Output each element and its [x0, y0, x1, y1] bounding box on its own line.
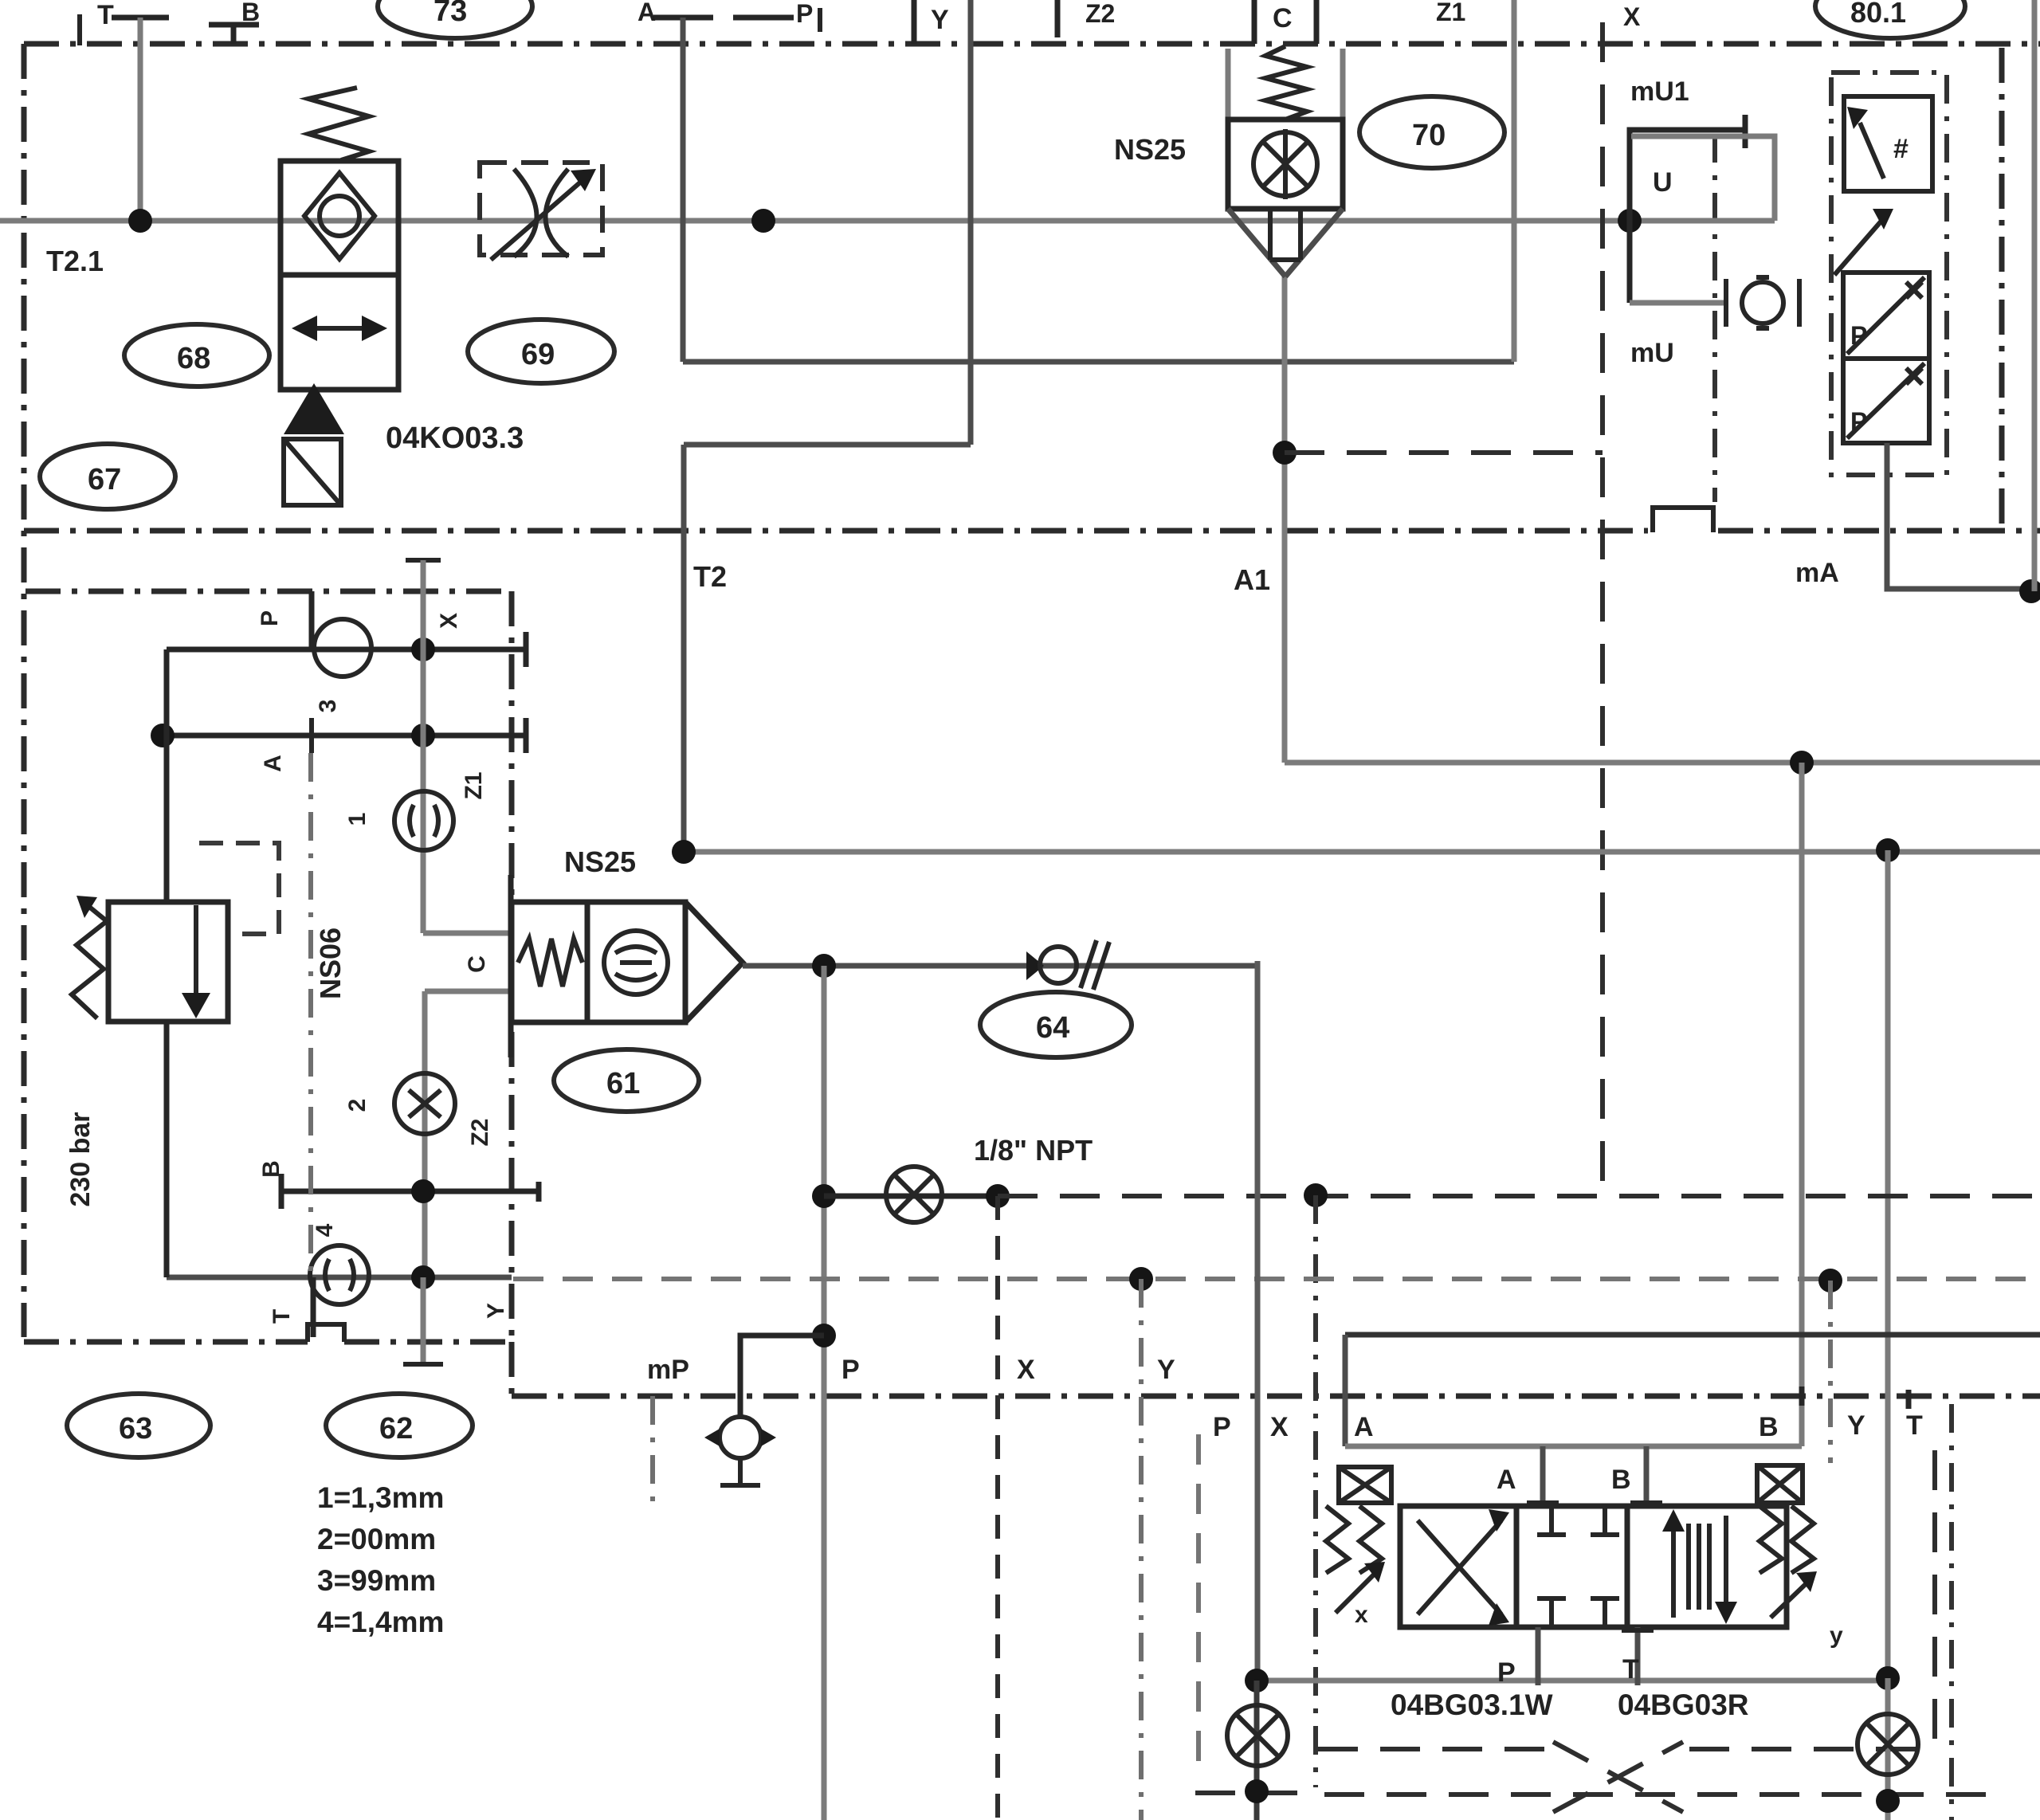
- dashed assembly box bottom: [1318, 1747, 1935, 1751]
- border mA port notch: [1653, 508, 1713, 532]
- svg-text:X: X: [436, 613, 462, 629]
- svg-text:4: 4: [312, 1223, 338, 1237]
- cartridge valve 70 body: [1228, 120, 1343, 209]
- svg-text:2: 2: [344, 1099, 371, 1112]
- junction T/main: [128, 209, 152, 233]
- svg-text:3=99mm: 3=99mm: [317, 1564, 436, 1597]
- junction X rail: [411, 637, 435, 661]
- svg-text:A: A: [260, 755, 286, 772]
- junction A1/X-pilot: [1273, 441, 1297, 465]
- svg-text:A: A: [1497, 1465, 1516, 1495]
- dash-dot pilot inside NS06: [308, 753, 313, 1272]
- U chamber gray box: [1631, 136, 1775, 221]
- NS06 T drop to border: [311, 1277, 316, 1337]
- cartridge valve 70 funnel: [1228, 209, 1343, 277]
- svg-text:A: A: [1354, 1412, 1374, 1442]
- port stub T: [1906, 1390, 1912, 1409]
- valve 61 shuttle circle: [604, 931, 668, 994]
- wire A1 horizontal y=957: [1285, 760, 2040, 766]
- valve parallel arrows (right cell): [1671, 1525, 1676, 1618]
- pilot dash-dot X drop x=1651: [1313, 1195, 1318, 1787]
- valve 61 spring: [518, 939, 583, 986]
- svg-text:x: x: [1355, 1602, 1368, 1628]
- port A tick: [653, 15, 713, 21]
- svg-text:B: B: [241, 0, 260, 26]
- check valve mU ball: [1742, 282, 1783, 324]
- svg-text:Z1: Z1: [461, 771, 487, 799]
- svg-text:4=1,4mm: 4=1,4mm: [317, 1606, 444, 1638]
- wire main supply line y=277: [0, 218, 1775, 224]
- wire T drop x=2369: [1885, 850, 1891, 1678]
- svg-text:B: B: [1611, 1465, 1631, 1495]
- svg-text:73: 73: [433, 0, 467, 28]
- NS06 tank rail y=1603: [167, 1275, 512, 1281]
- wire mP branch: [740, 1336, 824, 1418]
- dashed lower section top edge: [1324, 1792, 1992, 1797]
- NS06 rail 2 (A) y=923: [163, 733, 526, 739]
- svg-text:X: X: [1017, 1355, 1035, 1385]
- svg-text:T: T: [97, 0, 114, 30]
- valve 61 body: [512, 902, 685, 1022]
- junction T2/tank line: [672, 840, 696, 864]
- wire port A down: [681, 18, 686, 362]
- svg-text:62: 62: [379, 1412, 413, 1445]
- svg-text:04KO03.3: 04KO03.3: [386, 422, 524, 455]
- junction P rail: [1245, 1669, 1269, 1693]
- wire tank line y=1069: [684, 849, 2040, 855]
- svg-text:64: 64: [1036, 1011, 1069, 1045]
- svg-text:Y: Y: [1847, 1410, 1865, 1441]
- wire T2 horizontal y=558: [684, 442, 971, 448]
- test point circle-X P: [1254, 1681, 1260, 1820]
- check valve 68 body: [280, 161, 398, 390]
- valve 61 C stub: [508, 875, 514, 1057]
- svg-text:A: A: [637, 0, 656, 26]
- junction tank/Y: [411, 1265, 435, 1289]
- svg-text:T: T: [1906, 1410, 1923, 1441]
- svg-text:Y: Y: [931, 5, 949, 35]
- border NS06 block right: [509, 591, 515, 1342]
- valve closed centre (mid cell): [1537, 1506, 1619, 1627]
- svg-text:Z2: Z2: [467, 1118, 493, 1146]
- border staircase at mP: [650, 1396, 655, 1501]
- wire A-B rail y=1815: [1345, 1444, 1802, 1449]
- dashed gray drop x=1504: [1196, 1434, 1201, 1775]
- port stub left of T: [77, 14, 82, 45]
- dashed stub bottom left: [1195, 1791, 1318, 1795]
- svg-text:T: T: [269, 1309, 295, 1324]
- svg-text:NS25: NS25: [1114, 133, 1186, 166]
- svg-text:2=00mm: 2=00mm: [317, 1523, 436, 1555]
- svg-text:70: 70: [1412, 119, 1446, 152]
- oval tag 63: [67, 1394, 210, 1457]
- junction NS25 output / P drop: [812, 954, 836, 978]
- wire A to Z1 horizontal y=454: [683, 359, 1514, 365]
- wire Z1 vertical: [1512, 0, 1517, 362]
- pressure switch box P upper: [1843, 273, 1929, 359]
- svg-text:U: U: [1653, 167, 1673, 198]
- gauge adjust arrow: [1834, 220, 1882, 275]
- junction T rail: [1876, 1666, 1900, 1690]
- junction tank/T-drop: [1876, 838, 1900, 862]
- border NS06 T-port notch: [308, 1324, 344, 1342]
- svg-text:04BG03.1W: 04BG03.1W: [1391, 1689, 1553, 1721]
- wire Z1 column to orifice: [421, 735, 426, 933]
- svg-text:61: 61: [606, 1067, 640, 1100]
- wire B drop x=2261: [1799, 763, 1805, 1446]
- svg-text:Z2: Z2: [1085, 0, 1115, 28]
- wire T2 port vertical x=1218: [968, 0, 974, 445]
- terminal tick mU1: [1743, 115, 1748, 148]
- junction mA/right edge riser: [2019, 579, 2040, 603]
- wire NS25 output y=1212: [743, 963, 1257, 969]
- wire gauge down to mA: [1887, 443, 2029, 589]
- border sub-block mU dash-dot vertical: [1712, 134, 1717, 502]
- test point circle-X T: [1885, 1678, 1891, 1820]
- NS06 port P stub: [309, 591, 315, 648]
- port B tick: [209, 25, 259, 44]
- solenoid of valve 68: [284, 383, 344, 434]
- junction y-pilot branch: [1818, 1269, 1842, 1292]
- NS06 rail 1 (P/X) y=815: [167, 647, 526, 653]
- svg-text:1: 1: [344, 813, 371, 826]
- svg-text:1=1,3mm: 1=1,3mm: [317, 1481, 444, 1514]
- port Y stub: [912, 0, 917, 44]
- svg-text:NS06: NS06: [314, 928, 347, 999]
- border bottom-right dash-dot vertical: [1949, 1404, 1954, 1820]
- pilot dashed X to A1 y=568: [1285, 450, 1603, 455]
- solenoid left (x): [1339, 1467, 1391, 1503]
- wire T2 down to NS25 tee: [681, 445, 687, 852]
- junction A1/B-drop: [1790, 751, 1814, 775]
- solenoid right arrow y: [1771, 1581, 1809, 1618]
- junction X branch: [1304, 1183, 1328, 1207]
- svg-text:69: 69: [521, 338, 555, 371]
- oval tag 70: [1359, 96, 1504, 168]
- junction rail2 left: [151, 724, 175, 747]
- gauge box 1 needle arrow: [1860, 123, 1884, 178]
- oval tag 61: [554, 1049, 699, 1112]
- wire Z2 column down: [422, 991, 428, 1277]
- border top section frame, horizontal: [24, 41, 2040, 47]
- wire to test point 1/8 NPT: [824, 1194, 998, 1199]
- solenoid left springs: [1326, 1506, 1382, 1573]
- test point circle-X: [886, 1167, 942, 1222]
- svg-text:mU1: mU1: [1630, 76, 1689, 107]
- port Z2 stub: [1055, 0, 1061, 37]
- svg-text:#: #: [1893, 134, 1909, 164]
- NS06 port X from top: [406, 558, 441, 563]
- directional valve 04BG03.1W body: [1400, 1506, 1787, 1627]
- border NS06 block bottom: [24, 1340, 308, 1345]
- valve 61 nose cone: [685, 902, 743, 1022]
- check valve 64 seat: [1026, 951, 1044, 980]
- wire A1 from cartridge 70 down: [1282, 275, 1288, 763]
- wire port T down to main line: [138, 18, 143, 221]
- solenoid right springs: [1759, 1506, 1814, 1573]
- NS06 rail 3 (B) y=1495: [281, 1189, 539, 1194]
- port C box: [1254, 0, 1316, 44]
- svg-text:T2.1: T2.1: [46, 245, 104, 277]
- border mid divider at y=666: [24, 528, 1648, 534]
- wire right edge riser: [2032, 0, 2038, 591]
- orifice circle 1 (Z1): [394, 791, 453, 850]
- oval tag 80.1: [1815, 0, 1965, 38]
- relief valve 63 internal poppet: [194, 905, 198, 996]
- svg-text:63: 63: [119, 1412, 152, 1445]
- oval tag 73: [378, 0, 532, 38]
- border tick I right of P: [818, 8, 822, 32]
- svg-text:3: 3: [315, 700, 341, 713]
- svg-text:P: P: [1213, 1412, 1231, 1442]
- svg-text:Y: Y: [483, 1303, 509, 1319]
- wire P drop from NS25 output: [822, 966, 827, 1820]
- solenoid left arrow x: [1336, 1571, 1377, 1613]
- svg-text:B: B: [258, 1160, 284, 1178]
- solenoid right (y): [1757, 1465, 1803, 1503]
- orifice circle 2 (Z2): [394, 1073, 455, 1134]
- border left vertical: [22, 44, 27, 1337]
- orifice circle 3: [314, 619, 371, 677]
- check valve 68 diamond seat: [304, 173, 375, 259]
- border right vertical of top section: [1999, 48, 2005, 531]
- check valve 64 ball: [1040, 947, 1077, 983]
- wire bottom P/T rail y=2109: [1257, 1678, 1888, 1684]
- svg-text:67: 67: [88, 463, 121, 496]
- junction below circle-X P: [1245, 1779, 1269, 1803]
- wire X-Z1 column upper: [421, 649, 426, 735]
- svg-text:X: X: [1270, 1412, 1289, 1442]
- svg-text:Z1: Z1: [1436, 0, 1465, 26]
- check valve 68 poppet circle: [320, 196, 359, 236]
- check valve mU seat bars: [1726, 279, 1799, 327]
- drain dashed line y=1605: [513, 1277, 2040, 1281]
- svg-text:X: X: [1623, 2, 1641, 31]
- pilot dashed y drop x=2297: [1828, 1281, 1833, 1463]
- port stub B: [1799, 1387, 1805, 1406]
- svg-text:230 bar: 230 bar: [65, 1112, 96, 1206]
- svg-text:1/8" NPT: 1/8" NPT: [974, 1134, 1093, 1167]
- check valve 68 spring: [308, 88, 369, 160]
- oval tag 69: [468, 320, 614, 383]
- pilot dashed X vertical x=2011: [1600, 22, 1605, 1196]
- svg-text:P: P: [841, 1355, 860, 1385]
- svg-text:C: C: [464, 955, 490, 973]
- wire relief to tank rail: [164, 1022, 170, 1277]
- junction rail2 Z1: [411, 724, 435, 747]
- junction mP: [812, 1324, 836, 1347]
- port T tick: [112, 15, 169, 21]
- relief valve 63 body: [108, 902, 228, 1022]
- junction P/main: [751, 209, 775, 233]
- svg-text:A1: A1: [1234, 563, 1270, 596]
- wire Z1 to valve C upper: [423, 931, 512, 936]
- oval tag 67: [40, 444, 175, 509]
- throttle valve 69 arrow: [491, 177, 586, 260]
- oval tag 62: [326, 1394, 473, 1457]
- check valve 64 spring: [1081, 940, 1109, 990]
- pilot valve P stub: [1536, 1627, 1541, 1685]
- wire U riser: [1630, 130, 1748, 221]
- gauge box 1: [1844, 96, 1932, 191]
- pilot dashed NPT line y=1501: [998, 1194, 2040, 1198]
- junction NPT dashed: [986, 1184, 1010, 1208]
- svg-text:NS25: NS25: [564, 845, 636, 878]
- wire valve C to Z2 column: [425, 989, 512, 994]
- orifice circle 4 (T): [310, 1245, 369, 1304]
- svg-text:B: B: [1759, 1412, 1779, 1442]
- check valve 68 arrows: [303, 326, 376, 331]
- valve crossed arrows (left cell): [1418, 1520, 1501, 1614]
- pressure switch box P lower: [1843, 359, 1929, 443]
- oval tag 68: [124, 324, 269, 386]
- throttle valve 69 venturi arcs: [514, 169, 568, 257]
- wire mU branch: [1627, 221, 1633, 303]
- junction rail3/Z2: [411, 1179, 435, 1203]
- svg-text:P: P: [257, 610, 283, 626]
- svg-text:Y: Y: [1157, 1355, 1175, 1385]
- border gauge block dash-dot box: [1831, 73, 1947, 475]
- svg-text:y: y: [1830, 1622, 1843, 1649]
- border NS06 block top: [25, 589, 512, 594]
- svg-text:80.1: 80.1: [1850, 0, 1906, 29]
- junction P/NPT line: [812, 1184, 836, 1208]
- border step down to bottom section: [509, 1342, 515, 1396]
- border bottom section top edge: [512, 1394, 2040, 1399]
- relief valve pilot dashed: [199, 843, 279, 934]
- interchange scissors symbol: [1553, 1742, 1683, 1812]
- wire A port drop: [1343, 1335, 1348, 1446]
- pilot valve T stub: [1635, 1627, 1641, 1685]
- relief valve 63 spring zigzag: [72, 907, 107, 1018]
- pilot valve B stub: [1644, 1446, 1650, 1506]
- svg-text:04BG03R: 04BG03R: [1618, 1689, 1749, 1721]
- svg-text:C: C: [1273, 3, 1293, 33]
- pilot valve A stub: [1540, 1446, 1546, 1506]
- throttle valve 69 dashed box: [480, 163, 602, 255]
- svg-text:P: P: [1497, 1657, 1516, 1688]
- svg-text:T: T: [1622, 1654, 1639, 1685]
- wire P drop to bottom rail: [1255, 961, 1261, 1681]
- NS06 Y stub: [421, 1277, 426, 1362]
- wire A port feed y=1675: [1345, 1332, 2040, 1338]
- cartridge valve 70 spring: [1265, 46, 1307, 120]
- cartridge valve 70 upper chamber: [1228, 49, 1343, 120]
- wire relief valve riser: [164, 649, 170, 902]
- pilot dashed Y drop x=1432: [1139, 1279, 1144, 1820]
- corner NS25 output to P drop: [1255, 959, 1261, 964]
- svg-text:68: 68: [177, 342, 210, 375]
- pilot dashed X drop x=1252: [995, 1196, 1000, 1820]
- oval tag 64: [980, 992, 1132, 1057]
- svg-text:T2: T2: [693, 560, 727, 593]
- dashed assembly box right edge: [1932, 1450, 1937, 1749]
- port P tick: [733, 15, 794, 21]
- cartridge valve 70 orifice symbol: [1253, 132, 1317, 196]
- port stub A: [1343, 1387, 1348, 1406]
- junction Y branch: [1129, 1267, 1153, 1291]
- svg-text:P: P: [1850, 407, 1867, 436]
- svg-text:mA: mA: [1795, 558, 1839, 588]
- measuring coupling mP: [720, 1417, 761, 1458]
- svg-text:P: P: [1850, 321, 1867, 350]
- svg-text:mP: mP: [647, 1355, 689, 1385]
- svg-text:P: P: [796, 0, 813, 28]
- junction main/U-riser: [1618, 209, 1642, 233]
- junction below circle-X T: [1876, 1789, 1900, 1813]
- svg-text:mU: mU: [1630, 338, 1674, 368]
